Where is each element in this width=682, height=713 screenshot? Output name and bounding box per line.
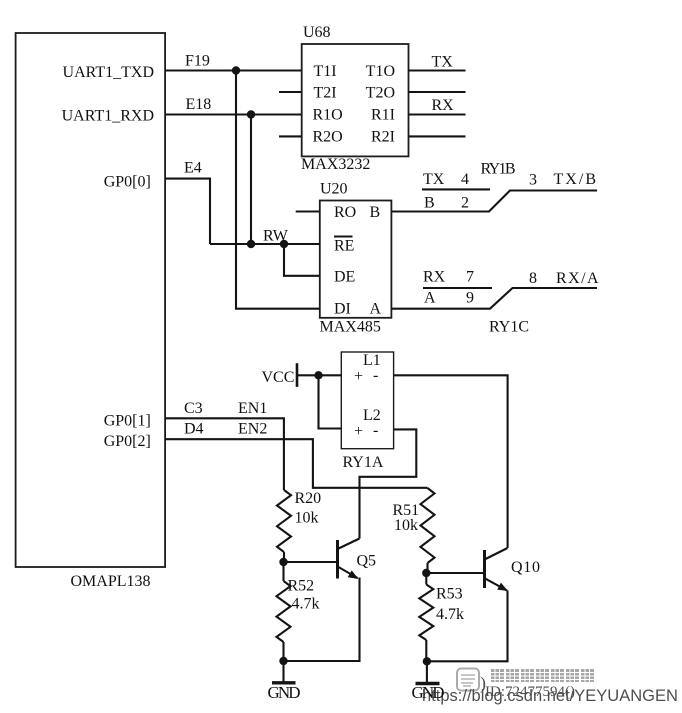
- svg-text:C3: C3: [184, 400, 203, 417]
- svg-text:4.7k: 4.7k: [292, 596, 320, 613]
- svg-text:+: +: [354, 368, 363, 385]
- svg-text:F19: F19: [185, 53, 210, 70]
- svg-text:RO: RO: [334, 204, 356, 221]
- svg-text:RY1C: RY1C: [489, 319, 529, 336]
- svg-text:UART1_TXD: UART1_TXD: [63, 64, 154, 81]
- svg-text:RX/A: RX/A: [556, 270, 599, 287]
- svg-text:MAX3232: MAX3232: [301, 156, 370, 173]
- svg-text:GND: GND: [268, 683, 301, 702]
- svg-text:RX: RX: [432, 97, 455, 114]
- svg-text:RY1B: RY1B: [481, 161, 516, 178]
- svg-text:U68: U68: [303, 24, 331, 41]
- svg-text:Q10: Q10: [511, 559, 540, 576]
- svg-text:RW: RW: [263, 227, 289, 244]
- svg-text:R52: R52: [288, 578, 315, 595]
- svg-text:10k: 10k: [295, 510, 319, 527]
- svg-text:R1O: R1O: [313, 107, 343, 124]
- svg-text:TX: TX: [423, 171, 445, 188]
- svg-text:UART1_RXD: UART1_RXD: [62, 108, 154, 125]
- svg-text:DE: DE: [334, 269, 355, 286]
- svg-text:B: B: [370, 204, 381, 221]
- svg-text:U20: U20: [320, 181, 348, 198]
- svg-text:R2I: R2I: [371, 129, 395, 146]
- svg-text:8: 8: [529, 270, 537, 287]
- svg-text:A: A: [370, 301, 382, 318]
- svg-text:A: A: [424, 290, 436, 307]
- svg-text:RE: RE: [334, 238, 354, 255]
- svg-text:E18: E18: [186, 96, 212, 113]
- svg-text:R53: R53: [436, 586, 463, 603]
- svg-text:4.7k: 4.7k: [436, 606, 464, 623]
- svg-text:R1I: R1I: [371, 107, 395, 124]
- svg-text:MAX485: MAX485: [320, 319, 381, 336]
- svg-text:EN1: EN1: [238, 400, 267, 417]
- svg-text:7: 7: [466, 269, 474, 286]
- svg-text:R20: R20: [295, 490, 322, 507]
- svg-text:T1I: T1I: [314, 63, 337, 80]
- svg-text:2: 2: [461, 195, 469, 212]
- svg-text:DI: DI: [334, 301, 351, 318]
- svg-text:9: 9: [466, 290, 474, 307]
- svg-text:4: 4: [461, 171, 469, 188]
- svg-text:EN2: EN2: [238, 421, 267, 438]
- svg-text:3: 3: [529, 172, 537, 189]
- svg-text:Q5: Q5: [357, 553, 377, 570]
- svg-text:OMAPL138: OMAPL138: [70, 573, 150, 590]
- svg-text:D4: D4: [184, 421, 204, 438]
- svg-text:VCC: VCC: [262, 369, 295, 386]
- svg-text:R2O: R2O: [313, 129, 343, 146]
- svg-text:B: B: [424, 195, 435, 212]
- svg-text:E4: E4: [184, 160, 202, 177]
- svg-text:T1O: T1O: [366, 63, 395, 80]
- svg-text:RX: RX: [423, 269, 446, 286]
- svg-text:-: -: [373, 422, 378, 439]
- svg-text:TX: TX: [432, 54, 454, 71]
- svg-text:T2O: T2O: [366, 85, 395, 102]
- svg-text:TX/B: TX/B: [554, 171, 597, 188]
- svg-text:RY1A: RY1A: [343, 454, 384, 471]
- svg-text:T2I: T2I: [314, 85, 337, 102]
- svg-text:GP0[0]: GP0[0]: [104, 174, 151, 191]
- svg-text:GP0[1]: GP0[1]: [104, 413, 151, 430]
- svg-text:-: -: [373, 367, 378, 384]
- svg-text:10k: 10k: [394, 517, 418, 534]
- svg-text:https://blog.csdn.net/YEYUANGE: https://blog.csdn.net/YEYUANGEN: [422, 687, 678, 705]
- svg-text:GP0[2]: GP0[2]: [104, 433, 151, 450]
- svg-text:+: +: [354, 423, 363, 440]
